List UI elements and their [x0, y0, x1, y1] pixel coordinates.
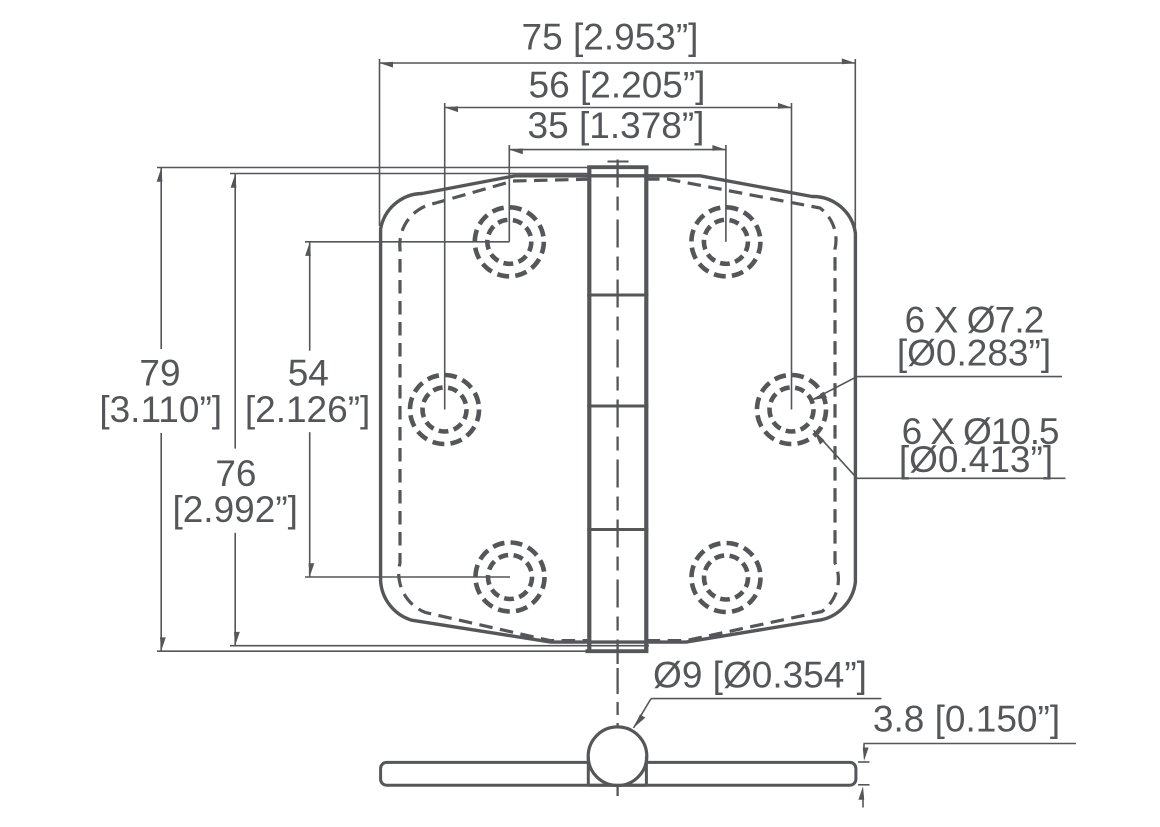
svg-text:75 [2.953”]: 75 [2.953”]: [522, 17, 699, 58]
svg-text:79: 79: [139, 353, 180, 394]
svg-text:[Ø0.413”]: [Ø0.413”]: [899, 439, 1053, 480]
svg-text:35 [1.378”]: 35 [1.378”]: [528, 105, 705, 146]
svg-text:[3.110”]: [3.110”]: [99, 389, 222, 430]
svg-text:76: 76: [215, 453, 256, 494]
svg-text:Ø9 [Ø0.354”]: Ø9 [Ø0.354”]: [653, 655, 867, 696]
svg-text:[Ø0.283”]: [Ø0.283”]: [897, 333, 1051, 374]
svg-text:56 [2.205”]: 56 [2.205”]: [529, 65, 706, 106]
svg-text:54: 54: [288, 353, 329, 394]
svg-text:[2.992”]: [2.992”]: [172, 489, 297, 530]
svg-text:3.8 [0.150”]: 3.8 [0.150”]: [873, 699, 1060, 740]
svg-text:[2.126”]: [2.126”]: [245, 389, 370, 430]
